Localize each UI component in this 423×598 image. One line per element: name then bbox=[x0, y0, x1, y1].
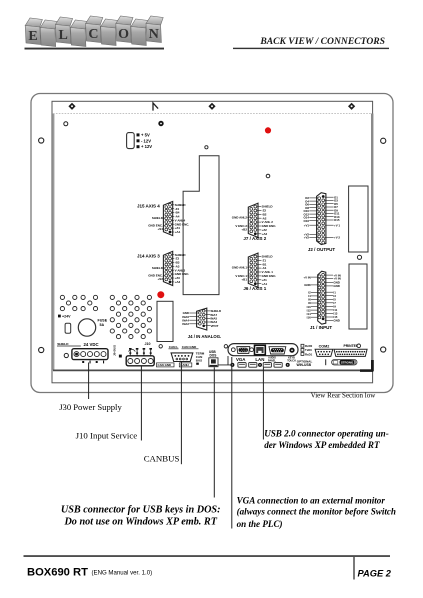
screw top-middle bbox=[208, 103, 215, 110]
frame hole bottom-left bbox=[39, 347, 44, 352]
CAN L label bbox=[169, 345, 179, 349]
svg-text:+V2: +V2 bbox=[304, 236, 310, 240]
connector VGA bbox=[237, 347, 250, 354]
svg-text:J4 / IN ANALOG.: J4 / IN ANALOG. bbox=[188, 334, 222, 339]
connector J15 AXIS 4 bbox=[148, 201, 189, 235]
svg-text:J30 Power Supply: J30 Power Supply bbox=[59, 402, 122, 412]
touch screw bbox=[289, 348, 294, 353]
panel hole E bbox=[357, 255, 361, 259]
orientation arrow mark bbox=[153, 103, 158, 111]
svg-text:on the PLC): on the PLC) bbox=[237, 519, 283, 529]
svg-text:+ 5V: + 5V bbox=[141, 132, 150, 137]
CANH boxed label bbox=[179, 363, 192, 367]
svg-text:CAN L: CAN L bbox=[169, 345, 179, 349]
svg-text:USB 2.0 connector operating un: USB 2.0 connector operating un- bbox=[264, 429, 389, 439]
svg-text:+24V: +24V bbox=[62, 315, 71, 319]
blanking plate lower bbox=[349, 264, 367, 329]
svg-text:SHIELD: SHIELD bbox=[57, 342, 69, 346]
SHIELD label bbox=[57, 342, 81, 346]
IO bar screw left bbox=[231, 348, 235, 352]
svg-text:N: N bbox=[149, 27, 159, 42]
svg-text:LAN: LAN bbox=[255, 357, 264, 362]
fuse bbox=[78, 319, 95, 336]
connector J7 AXIS 2 bbox=[232, 203, 277, 237]
svg-text:J2 / OUTPUT: J2 / OUTPUT bbox=[308, 247, 336, 252]
svg-text:BACK VIEW / CONNECTORS: BACK VIEW / CONNECTORS bbox=[259, 36, 385, 47]
KEYB TOUCH label bbox=[287, 357, 296, 363]
svg-text:GND ANL1: GND ANL1 bbox=[232, 265, 248, 269]
PRINTER label bbox=[344, 344, 361, 348]
svg-text:VGA: VGA bbox=[236, 357, 246, 362]
connector J2 OUTPUT bbox=[304, 193, 341, 245]
connector J30 24VDC bbox=[72, 349, 108, 364]
inner panel frame bbox=[52, 101, 373, 383]
svg-text:E: E bbox=[28, 29, 37, 44]
connector PRINTER D-sub25 bbox=[334, 349, 367, 356]
red marker dot upper bbox=[265, 127, 271, 133]
red marker dot lower bbox=[157, 291, 164, 298]
svg-text:J14 AXIS 3: J14 AXIS 3 bbox=[137, 253, 160, 258]
frame hole top-right bbox=[381, 138, 386, 143]
IO bar screw mid bbox=[250, 348, 254, 352]
svg-text:CANBUS: CANBUS bbox=[144, 454, 180, 464]
CAN GND label bbox=[182, 345, 199, 349]
svg-text:VGA connection to an exter: VGA connection to an external monitor bbox=[237, 495, 386, 505]
svg-text:J1 / INPUT: J1 / INPUT bbox=[310, 325, 333, 330]
svg-text:PAGE 2: PAGE 2 bbox=[358, 568, 392, 578]
panel hole G bbox=[224, 345, 227, 348]
DOM module badge bbox=[332, 360, 357, 366]
svg-text:(always connect the monitor be: (always connect the monitor before Switc… bbox=[237, 507, 396, 517]
terminal block mark bbox=[119, 355, 122, 358]
svg-text:TOUCH: TOUCH bbox=[287, 360, 296, 363]
wire CANBUS pointer bbox=[180, 362, 182, 464]
title underline bbox=[233, 48, 389, 49]
svg-text:SHIELD: SHIELD bbox=[152, 216, 164, 220]
recessed panel right edge bbox=[371, 114, 373, 371]
svg-text:BOX690 RT: BOX690 RT bbox=[27, 566, 88, 578]
svg-text:BUS: BUS bbox=[196, 358, 202, 362]
recessed panel bottom edge bbox=[53, 369, 373, 371]
svg-text:RxD1: RxD1 bbox=[305, 352, 313, 356]
svg-text:+V 1: +V 1 bbox=[334, 223, 340, 227]
svg-text:GND: GND bbox=[304, 283, 310, 287]
svg-text:+V IN: +V IN bbox=[303, 275, 310, 279]
svg-text:+A4: +A4 bbox=[175, 230, 181, 234]
separator line bbox=[325, 359, 327, 365]
serial LED indicators bbox=[301, 344, 313, 356]
connector J8 CANBUS D-sub bbox=[171, 353, 193, 362]
connector J10 bbox=[126, 348, 154, 366]
footer page separator bbox=[353, 557, 355, 580]
connector USB DOS port bbox=[209, 358, 218, 367]
panel hole B bbox=[64, 353, 68, 357]
svg-text:der Windows XP embedded RT: der Windows XP embedded RT bbox=[264, 440, 380, 450]
outer panel frame bbox=[31, 94, 393, 393]
svg-text:- 12V: - 12V bbox=[141, 138, 151, 143]
vent hole cluster left bbox=[60, 295, 77, 310]
svg-text:J6 / AXIS 1: J6 / AXIS 1 bbox=[243, 286, 266, 291]
svg-text:GND: GND bbox=[333, 319, 339, 323]
connector COM2 D-sub bbox=[315, 349, 333, 356]
svg-text:CAN GND: CAN GND bbox=[158, 363, 172, 367]
svg-text:Do not use on Windows XP emb.: Do not use on Windows XP emb. RT bbox=[63, 517, 217, 528]
blanking plate upper bbox=[349, 186, 368, 252]
svg-text:+V1: +V1 bbox=[304, 223, 310, 227]
wire J10 pointer bbox=[140, 367, 142, 441]
svg-text:+B2: +B2 bbox=[241, 228, 247, 232]
vent hole cluster middle bbox=[81, 295, 98, 310]
svg-text:GND: GND bbox=[333, 284, 339, 288]
frame hole top-left bbox=[39, 138, 44, 143]
panel hole D bbox=[266, 174, 270, 178]
24V connector slot bbox=[65, 323, 71, 333]
connector J6 AXIS 1 bbox=[232, 253, 277, 287]
USB DOS label bbox=[209, 350, 216, 358]
svg-text:View Rear Section low: View Rear Section low bbox=[311, 391, 377, 399]
fuse label bbox=[98, 319, 108, 327]
panel hole F bbox=[159, 345, 162, 348]
frame hole bottom-right bbox=[381, 347, 386, 352]
svg-text:+S3: +S3 bbox=[157, 277, 163, 281]
LED indicator bbox=[158, 121, 163, 126]
screw top-right bbox=[348, 103, 355, 110]
svg-text:SHIELD: SHIELD bbox=[152, 266, 164, 270]
vent hole cluster right bbox=[110, 295, 151, 338]
svg-text:VPOT: VPOT bbox=[211, 324, 219, 328]
connector J4 IN ANALOG bbox=[182, 308, 221, 330]
svg-text:+A3: +A3 bbox=[175, 280, 181, 284]
IO bar bbox=[228, 344, 298, 356]
panel hole A bbox=[64, 122, 68, 126]
svg-text:+S4: +S4 bbox=[157, 227, 163, 231]
svg-text:J9-BUS: J9-BUS bbox=[113, 345, 117, 356]
svg-text:INA2: INA2 bbox=[182, 322, 189, 326]
ELCON logo bbox=[25, 16, 163, 47]
CAN GND boxed label bbox=[157, 363, 175, 367]
svg-text:24 VDC: 24 VDC bbox=[84, 342, 99, 347]
wire J30 pointer bbox=[88, 363, 90, 400]
voltage legend labels bbox=[137, 132, 153, 149]
svg-text:+B1: +B1 bbox=[241, 277, 247, 281]
connector LAN bbox=[255, 345, 266, 354]
connector J1 INPUT bbox=[303, 271, 340, 324]
J9-BUS vertical label bbox=[113, 345, 117, 356]
+24V label bbox=[58, 315, 61, 318]
svg-text:J7 / AXIS 2: J7 / AXIS 2 bbox=[243, 236, 266, 241]
svg-text:O16: O16 bbox=[304, 219, 310, 223]
svg-text:J10 Input Service: J10 Input Service bbox=[76, 431, 138, 441]
svg-text:O15: O15 bbox=[334, 218, 340, 222]
recessed panel top edge bbox=[53, 113, 372, 115]
svg-text:I16: I16 bbox=[307, 315, 311, 319]
note USB DOS bbox=[61, 504, 221, 527]
screw top-left bbox=[68, 103, 75, 110]
recessed panel corner shadow bbox=[360, 360, 373, 371]
note VGA bbox=[237, 495, 396, 529]
footer rule bbox=[24, 555, 391, 557]
svg-text:+ 12V: + 12V bbox=[141, 144, 152, 149]
connector J14 AXIS 3 bbox=[148, 251, 189, 285]
panel hole C bbox=[205, 146, 208, 149]
blank slot rectangle bbox=[157, 301, 173, 341]
recessed panel left edge bbox=[52, 114, 54, 371]
USB port row bbox=[230, 363, 289, 368]
svg-text:L: L bbox=[59, 28, 68, 43]
TERM CAN BUS label bbox=[196, 352, 205, 365]
logo underline bbox=[25, 48, 165, 50]
svg-text:CAN GND: CAN GND bbox=[182, 345, 197, 349]
AUDIO PANEL label bbox=[268, 357, 276, 363]
wire USB DOS pointer bbox=[213, 367, 215, 497]
svg-text:(ENG Manual ver. 1.0): (ENG Manual ver. 1.0) bbox=[92, 570, 153, 577]
svg-text:COM2: COM2 bbox=[319, 344, 330, 348]
stepped cutout outline bbox=[183, 156, 219, 295]
OPTIONAL WIN-USB label bbox=[297, 359, 313, 367]
note USB 2.0 bbox=[264, 429, 389, 450]
wire USB2 pointer bbox=[262, 368, 264, 440]
connector COM1 D-sub bbox=[269, 347, 286, 354]
svg-text:USB connector for USB keys in: USB connector for USB keys in DOS: bbox=[61, 504, 221, 515]
svg-text:5A: 5A bbox=[100, 323, 105, 327]
svg-text:WIN-USB: WIN-USB bbox=[297, 363, 312, 367]
svg-text:J15 AXIS 4: J15 AXIS 4 bbox=[137, 204, 160, 209]
svg-text:C: C bbox=[88, 27, 98, 42]
svg-text:DOS: DOS bbox=[210, 353, 217, 357]
wire VGA pointer elbow bbox=[218, 356, 232, 365]
svg-text:O: O bbox=[118, 27, 129, 42]
svg-text:J10: J10 bbox=[145, 342, 151, 346]
svg-text:+V 2: +V 2 bbox=[334, 236, 340, 240]
voltage legend connector bbox=[127, 133, 135, 149]
svg-text:GND ANL2: GND ANL2 bbox=[232, 215, 248, 219]
wire VGA pointer bbox=[231, 357, 233, 529]
